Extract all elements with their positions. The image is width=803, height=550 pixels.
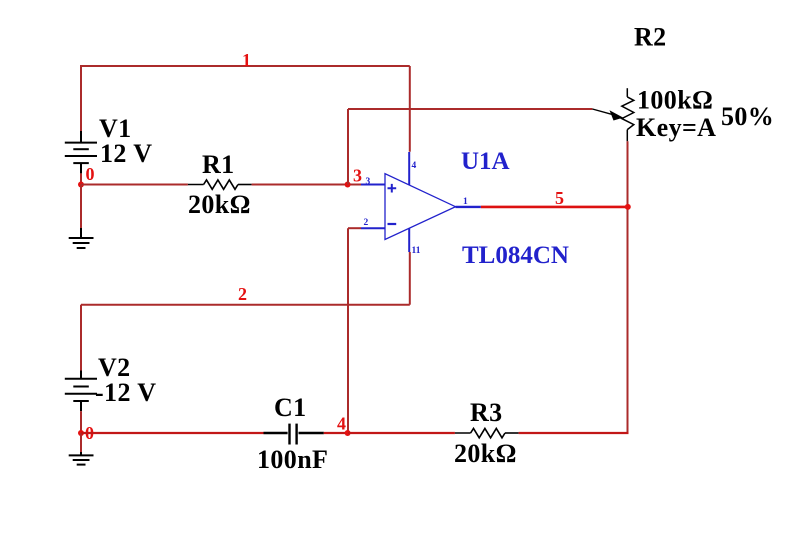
wire wiper feedback horizontal to R2 wiper: [348, 108, 592, 110]
op-amp pin stub VEE pin 11: [408, 228, 410, 252]
node 0 junction dot (bottom): [78, 430, 84, 436]
wire R1 to op-amp + input (node 3): [252, 184, 361, 186]
node 3 junction dot: [345, 182, 351, 188]
wire net 2 horizontal V2+ to pin 11 column: [81, 304, 410, 306]
wire R3 to right rail: [519, 432, 629, 434]
svg-text:-12 V: -12 V: [95, 378, 156, 407]
wire net 5 output: [481, 206, 629, 209]
wire V1- to node 0 junction: [80, 173, 82, 184]
wire net 1 top horizontal V1+ to pin4 column: [81, 65, 410, 67]
svg-text:20kΩ: 20kΩ: [188, 190, 251, 219]
wire node 0 to R1: [81, 184, 188, 186]
node 4 junction dot: [345, 430, 351, 436]
svg-text:R3: R3: [470, 398, 503, 427]
svg-text:12 V: 12 V: [100, 139, 152, 168]
ground (bottom left): [69, 452, 94, 465]
capacitor C1: [264, 424, 324, 445]
op-amp plus sign: [388, 184, 397, 193]
wire C1 to node 4: [324, 432, 348, 434]
wiper arrow of R2: [592, 109, 613, 115]
svg-text:0: 0: [86, 164, 95, 184]
svg-text:3: 3: [353, 166, 362, 186]
svg-text:1: 1: [242, 50, 251, 70]
ground (top left): [69, 228, 94, 248]
potentiometer R2: [622, 88, 634, 141]
svg-text:R2: R2: [634, 23, 667, 52]
battery V1: [65, 131, 97, 173]
svg-text:11: 11: [412, 246, 421, 256]
op-amp pin stub - input: [361, 227, 385, 229]
svg-text:TL084CN: TL084CN: [462, 242, 569, 269]
svg-text:3: 3: [366, 177, 371, 187]
op-amp pin stub VCC pin 4: [408, 152, 410, 185]
svg-text:20kΩ: 20kΩ: [454, 439, 517, 468]
svg-text:R1: R1: [202, 150, 235, 179]
resistor R3: [455, 428, 519, 437]
svg-text:5: 5: [555, 188, 564, 208]
svg-text:50%: 50%: [721, 102, 774, 131]
wire node 0 down to ground: [80, 185, 82, 229]
wire net 1 vertical from V1 top: [80, 65, 82, 131]
wire node 0 to C1: [81, 432, 264, 434]
wire node 4 to R3: [348, 432, 455, 434]
battery V2: [65, 371, 97, 412]
svg-text:Key=A: Key=A: [636, 113, 716, 142]
op-amp U1 triangle: [385, 174, 456, 240]
svg-text:2: 2: [364, 218, 369, 228]
wire right rail R2 bottom to node 5 to R3 corner: [627, 141, 629, 433]
svg-text:4: 4: [337, 414, 346, 434]
wire net 2 vertical up to pin 11: [409, 252, 411, 305]
op-amp pin stub + input: [361, 184, 385, 186]
wire node 0 down to ground (bottom): [80, 433, 82, 452]
resistor R1: [188, 180, 252, 189]
wire feedback column down to node 4: [347, 228, 349, 433]
wire wiper feedback vertical to node 3: [347, 109, 349, 185]
node 5 junction dot: [625, 204, 631, 210]
wire - input to feedback column: [348, 227, 361, 229]
svg-text:4: 4: [412, 161, 417, 171]
wire net 2 vertical down to V2: [80, 305, 82, 371]
svg-text:U1A: U1A: [461, 148, 510, 175]
svg-text:C1: C1: [274, 393, 307, 422]
svg-text:1: 1: [463, 197, 468, 207]
wire V2- to node 0 junction (bottom): [80, 411, 82, 433]
svg-text:2: 2: [238, 284, 247, 304]
node 0 junction dot (top): [78, 182, 84, 188]
wire net 1 vertical drop to op-amp pin 4: [409, 66, 411, 152]
svg-text:100kΩ: 100kΩ: [637, 86, 713, 115]
svg-text:100nF: 100nF: [257, 445, 328, 474]
op-amp minus sign: [388, 223, 397, 225]
op-amp output stub pin 1: [456, 206, 481, 208]
